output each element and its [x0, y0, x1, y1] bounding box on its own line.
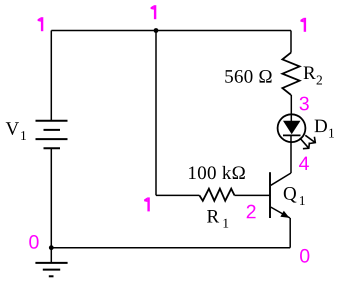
node 4: [299, 157, 309, 170]
LED light arrow lower: [300, 138, 310, 149]
wire R1 to transistor base: [235, 194, 270, 196]
label R1: [207, 210, 228, 228]
wire emitter to bottom rail: [289, 218, 291, 248]
node 1 mid-left: [147, 197, 149, 211]
node 3: [300, 97, 309, 111]
resistor R2: [282, 53, 299, 95]
label Q1: [284, 187, 305, 205]
LED D1 circle: [278, 114, 306, 142]
resistor R1: [199, 189, 234, 201]
label R2: [304, 67, 322, 85]
label 560 ohm: [225, 70, 271, 83]
wire LED to collector corner (node 4): [290, 135, 292, 173]
wire bottom rail: [51, 247, 290, 249]
transistor Q1 emitter lead: [271, 207, 290, 218]
transistor Q1 emitter arrowhead: [280, 211, 289, 218]
node 1 top-left: [41, 17, 43, 31]
label V1: [6, 122, 26, 140]
label D1: [315, 120, 334, 138]
junction dot node 1: [154, 28, 159, 33]
wire left branch upper (to battery): [50, 31, 52, 121]
LED D1 triangle: [283, 121, 301, 134]
node 1 top-middle: [154, 5, 156, 19]
LED light arrow upper: [305, 135, 315, 143]
junction dot node 0: [49, 245, 54, 250]
LED D1 cathode bar: [283, 134, 301, 136]
ground: [35, 248, 67, 277]
wire middle branch to R1: [156, 194, 199, 196]
transistor Q1 base bar: [269, 172, 271, 218]
node 1 top-right: [304, 18, 306, 32]
wire middle branch vertical: [155, 31, 157, 196]
wire top rail: [51, 30, 291, 32]
node 2: [247, 205, 256, 219]
label 100 kohm: [189, 166, 245, 179]
node 0 bottom-right: [300, 249, 309, 263]
node 0 bottom-left: [29, 235, 38, 249]
wire R2 to LED (node 3): [290, 95, 292, 121]
battery V1: [36, 121, 68, 149]
wire right branch top: [290, 31, 292, 53]
transistor Q1 collector lead: [271, 173, 291, 185]
wire left branch lower (battery to bottom rail): [50, 148, 52, 248]
